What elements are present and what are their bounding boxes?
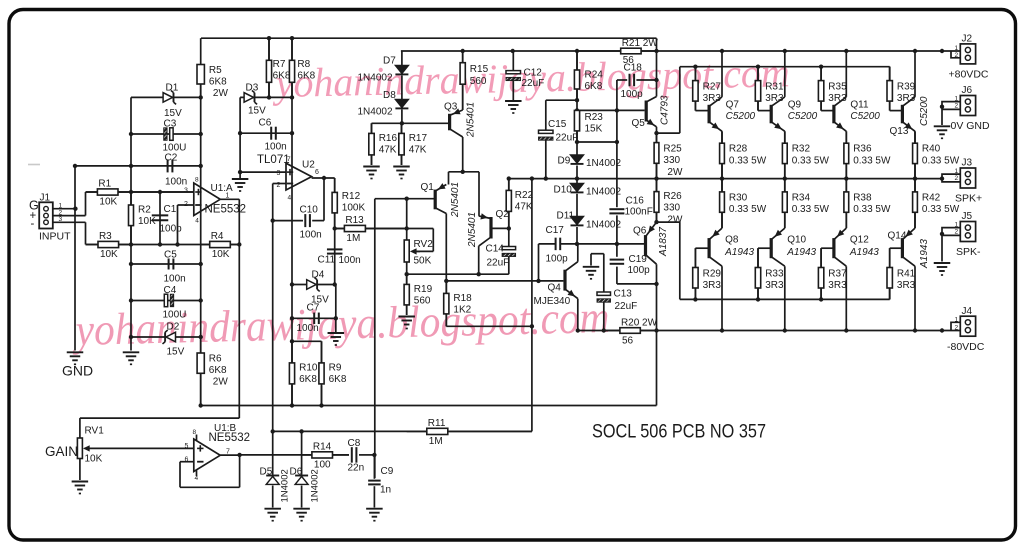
wire [321, 386, 323, 406]
capacitor C11 [318, 249, 361, 266]
diode D8 [383, 90, 408, 108]
svg-text:2N5401: 2N5401 [466, 102, 477, 138]
svg-text:C12: C12 [524, 68, 543, 79]
resistor R3 [86, 231, 132, 260]
wire [889, 288, 891, 299]
junction [720, 176, 724, 180]
junction [444, 279, 448, 283]
wire [201, 405, 657, 407]
resistor R4 [201, 231, 240, 260]
diode D10 [554, 184, 584, 196]
junction [129, 262, 133, 266]
resistor R17 [399, 123, 428, 165]
diode D9 [558, 155, 584, 167]
svg-text:3R3: 3R3 [765, 280, 784, 291]
capacitor C10 [300, 205, 322, 241]
svg-text:C16: C16 [626, 195, 645, 206]
junction [129, 242, 133, 246]
junction [73, 207, 77, 211]
wire [200, 373, 202, 406]
junction [319, 403, 323, 407]
capacitor C7 [297, 303, 320, 335]
resistor R13 [335, 215, 407, 244]
svg-text:J1: J1 [40, 192, 51, 203]
junction [720, 328, 724, 332]
capacitor C16 [609, 195, 652, 217]
ground [67, 352, 84, 364]
svg-text:560: 560 [414, 295, 431, 306]
junction [290, 339, 294, 343]
junction [507, 226, 511, 230]
wire [656, 163, 658, 191]
zener diode D3 [244, 83, 266, 117]
svg-text:56: 56 [622, 336, 634, 347]
svg-text:2: 2 [277, 182, 281, 189]
svg-text:100n: 100n [339, 255, 361, 266]
resistor R36 [844, 131, 891, 178]
wire [694, 67, 696, 81]
junction [237, 242, 241, 246]
wire [373, 455, 375, 479]
svg-text:C5200: C5200 [919, 96, 930, 126]
wire [131, 133, 201, 135]
svg-text:6: 6 [185, 457, 189, 464]
wire [335, 228, 407, 230]
svg-text:3: 3 [277, 170, 281, 177]
wire [512, 81, 514, 101]
svg-text:22uF: 22uF [615, 301, 638, 312]
junction [575, 140, 579, 144]
junction [575, 176, 579, 180]
wire [546, 99, 577, 101]
wire [576, 194, 578, 217]
wire [178, 204, 194, 206]
wire [180, 486, 240, 488]
svg-text:7: 7 [287, 156, 291, 163]
wire [531, 179, 533, 432]
svg-text:C13: C13 [614, 289, 633, 300]
wire [845, 266, 847, 330]
wire [80, 417, 239, 419]
svg-text:R2: R2 [138, 205, 151, 216]
junction [199, 164, 203, 168]
wire [914, 131, 916, 142]
junction [654, 282, 658, 286]
label D5 value [280, 469, 291, 502]
junction [199, 298, 203, 302]
resistor R33 [755, 248, 784, 299]
junction [290, 36, 294, 40]
svg-text:100p: 100p [621, 89, 644, 100]
capacitor C3 [163, 119, 187, 154]
op-amp U1:B NE5532 [185, 423, 251, 482]
connector J3 [942, 158, 982, 205]
wire [721, 51, 723, 97]
potentiometer RV2 [404, 239, 433, 267]
svg-text:R35: R35 [828, 82, 847, 93]
wire [845, 51, 847, 97]
svg-text:100K: 100K [342, 203, 366, 214]
wire [273, 430, 532, 432]
svg-text:1M: 1M [429, 436, 443, 447]
svg-text:RV1: RV1 [85, 426, 105, 437]
diode D5 [260, 467, 280, 485]
potentiometer RV1 [77, 426, 104, 465]
svg-text:D9: D9 [558, 156, 571, 167]
wire [375, 198, 434, 200]
svg-text:6K8: 6K8 [209, 365, 227, 376]
wire [616, 80, 618, 207]
junction [654, 131, 658, 135]
label D10 value [586, 187, 621, 198]
transistor Q3 [444, 102, 477, 139]
svg-text:15K: 15K [585, 124, 603, 135]
svg-text:D2: D2 [167, 322, 180, 333]
wire [545, 100, 547, 130]
resistor R8 [289, 38, 315, 97]
wire [576, 89, 578, 111]
resistor R24 [574, 51, 603, 100]
label Q4 type [534, 296, 571, 307]
svg-text:R1: R1 [98, 179, 111, 190]
svg-text:R30: R30 [729, 192, 748, 203]
wire [889, 288, 891, 299]
svg-text:1N4002: 1N4002 [358, 73, 393, 84]
wire [462, 84, 464, 110]
svg-text:47K: 47K [379, 145, 397, 156]
wire [478, 246, 480, 274]
svg-text:2W: 2W [667, 167, 683, 178]
svg-text:2: 2 [955, 103, 959, 110]
svg-text:C5200: C5200 [788, 111, 818, 122]
zener diode D2 [163, 322, 185, 358]
wire [845, 131, 847, 142]
junction [654, 328, 658, 332]
stray mark [28, 164, 40, 166]
svg-text:1N4002: 1N4002 [358, 107, 393, 118]
transistor Q14 [888, 228, 931, 269]
svg-text:R31: R31 [765, 82, 784, 93]
wire [414, 250, 433, 252]
resistor R2 [129, 192, 157, 245]
svg-text:U2: U2 [302, 160, 315, 171]
svg-text:R21 2W: R21 2W [622, 38, 659, 49]
wire [784, 51, 786, 97]
svg-text:A1943: A1943 [724, 247, 754, 258]
junction [461, 49, 465, 53]
wire [177, 205, 179, 245]
svg-text:3R3: 3R3 [703, 280, 722, 291]
wire [538, 244, 540, 281]
transistor Q9 [770, 97, 818, 131]
svg-text:3: 3 [184, 188, 188, 195]
ground [366, 509, 383, 521]
transistor Q6 [633, 222, 669, 264]
svg-text:C9: C9 [381, 466, 394, 477]
wire [616, 215, 618, 244]
junction [129, 335, 133, 339]
wire [757, 101, 759, 111]
resistor R41 [887, 248, 916, 299]
svg-text:1: 1 [955, 316, 959, 323]
resistor R16 [369, 123, 398, 165]
svg-text:47K: 47K [515, 202, 533, 213]
svg-text:C6: C6 [259, 118, 272, 129]
svg-text:1N4002: 1N4002 [586, 158, 621, 169]
wire [680, 298, 890, 300]
svg-text:D5: D5 [260, 467, 273, 478]
svg-text:2W: 2W [213, 377, 229, 388]
transistor Q7 [708, 97, 756, 131]
wire [220, 454, 239, 456]
svg-text:6K8: 6K8 [273, 70, 291, 81]
wire [889, 67, 891, 81]
wire [679, 67, 681, 133]
junction [783, 176, 787, 180]
capacitor C18 [621, 63, 644, 101]
junction [238, 170, 242, 174]
wire [406, 303, 408, 315]
svg-text:R16: R16 [379, 133, 398, 144]
wire [721, 212, 723, 228]
svg-text:2W: 2W [667, 214, 683, 225]
wire [446, 325, 532, 327]
wire [577, 141, 617, 143]
svg-text:1: 1 [955, 45, 959, 52]
wire [820, 67, 822, 81]
junction [129, 132, 133, 136]
junction [129, 164, 133, 168]
wire [492, 227, 508, 229]
svg-text:Q5: Q5 [632, 118, 646, 129]
wire [603, 254, 605, 292]
svg-text:330: 330 [663, 203, 680, 214]
label D7 value [358, 73, 393, 84]
junction [940, 105, 944, 109]
wire [301, 486, 303, 508]
wire [321, 341, 323, 364]
svg-text:A1837: A1837 [658, 227, 669, 257]
wire [784, 131, 786, 142]
svg-text:R19: R19 [414, 284, 433, 295]
wire [272, 184, 274, 432]
wire [131, 263, 201, 265]
resistor R38 [844, 179, 891, 229]
svg-text:2: 2 [955, 325, 959, 332]
wire [577, 244, 579, 262]
svg-text:Q8: Q8 [725, 235, 739, 246]
svg-text:Q6: Q6 [633, 226, 647, 237]
junction [575, 242, 579, 246]
svg-text:Q11: Q11 [850, 100, 869, 111]
svg-text:NE5532: NE5532 [209, 432, 251, 444]
svg-text:2N5401: 2N5401 [450, 182, 461, 218]
wire [268, 83, 270, 98]
svg-text:8: 8 [195, 176, 199, 183]
label GAIN [45, 444, 78, 459]
svg-text:R25: R25 [663, 144, 682, 155]
wire [576, 131, 578, 143]
resistor R6 [197, 337, 228, 406]
svg-text:R9: R9 [329, 362, 342, 373]
svg-text:C4793: C4793 [660, 95, 671, 125]
wire [53, 215, 86, 217]
svg-text:R17: R17 [409, 133, 428, 144]
wire [85, 447, 194, 449]
resistor R29 [693, 248, 722, 299]
svg-text:56: 56 [623, 55, 635, 66]
svg-text:0.33 5W: 0.33 5W [853, 155, 891, 166]
svg-text:0.33 5W: 0.33 5W [792, 155, 830, 166]
wire [561, 243, 646, 245]
watermark top [271, 49, 790, 106]
wire [545, 141, 547, 179]
wire [578, 330, 942, 332]
wire [323, 178, 325, 221]
svg-text:1: 1 [955, 168, 959, 175]
junction [693, 65, 697, 69]
svg-text:D6: D6 [290, 467, 303, 478]
wire [374, 199, 376, 478]
wire [239, 455, 241, 487]
svg-text:SOCL 506 PCB NO 357: SOCL 506 PCB NO 357 [592, 421, 766, 443]
junction [819, 297, 823, 301]
svg-text:2: 2 [955, 52, 959, 59]
junction [783, 328, 787, 332]
svg-text:Q3: Q3 [444, 102, 458, 113]
junction [129, 190, 133, 194]
label D11 value [586, 220, 621, 231]
junction [507, 176, 511, 180]
svg-text:0.33 5W: 0.33 5W [922, 155, 960, 166]
wire [889, 248, 891, 267]
wire [312, 220, 324, 222]
svg-text:3R3: 3R3 [897, 280, 916, 291]
wire [239, 97, 241, 179]
wire [695, 247, 708, 249]
transistor Q13 [890, 96, 931, 137]
capacitor C13 [597, 289, 637, 313]
wire [79, 418, 81, 438]
ground [123, 352, 140, 364]
svg-text:Q9: Q9 [788, 100, 802, 111]
svg-text:1K2: 1K2 [453, 304, 471, 315]
svg-text:R12: R12 [342, 191, 361, 202]
junction [530, 324, 534, 328]
wire [576, 179, 578, 184]
wire [359, 454, 374, 456]
svg-text:SPK-: SPK- [956, 246, 981, 258]
ground [264, 509, 281, 521]
junction [372, 453, 376, 457]
svg-text:100n: 100n [297, 323, 319, 334]
wire [758, 110, 770, 112]
svg-text:560: 560 [470, 76, 487, 87]
resistor R26 [654, 179, 683, 226]
watermark bottom [71, 292, 610, 355]
capacitor C8 [348, 438, 365, 474]
junction [940, 232, 944, 236]
wire [131, 300, 201, 302]
junction [461, 170, 465, 174]
resistor R25 [654, 133, 683, 179]
ground [393, 167, 410, 179]
svg-text:100p: 100p [160, 224, 183, 235]
svg-text:A1943: A1943 [849, 247, 879, 258]
junction [720, 49, 724, 53]
junction [544, 176, 548, 180]
svg-text:10K: 10K [138, 216, 156, 227]
svg-text:1N4002: 1N4002 [586, 187, 621, 198]
wire [656, 133, 658, 142]
svg-text:R7: R7 [273, 59, 286, 70]
wire [757, 67, 759, 81]
svg-text:C2: C2 [165, 152, 178, 163]
transistor Q8 [708, 228, 755, 266]
svg-text:47K: 47K [409, 145, 427, 156]
svg-text:1: 1 [955, 222, 959, 229]
connector J5 [942, 211, 981, 262]
junction [819, 65, 823, 69]
resistor R40 [913, 131, 960, 178]
wire [292, 317, 336, 319]
wire [401, 123, 403, 133]
junction [913, 176, 917, 180]
svg-text:Q12: Q12 [850, 235, 869, 246]
svg-text:Q13: Q13 [890, 126, 909, 137]
wire [407, 228, 434, 230]
label D9 value [586, 158, 621, 169]
wire [291, 285, 293, 406]
svg-text:R13: R13 [345, 215, 364, 226]
wire [889, 101, 891, 111]
resistor R22 [506, 179, 533, 229]
wire [432, 229, 434, 252]
wire [603, 302, 605, 330]
op-amp U1:B power stubs [196, 435, 198, 477]
junction [333, 282, 337, 286]
ground [232, 179, 249, 191]
wire [201, 37, 657, 39]
svg-text:C5: C5 [164, 250, 177, 261]
wire [333, 454, 350, 456]
svg-text:2N5401: 2N5401 [467, 212, 478, 248]
wire [230, 244, 240, 246]
wire [889, 67, 891, 81]
wire [508, 257, 510, 274]
junction [175, 242, 179, 246]
capacitor C12 [506, 68, 544, 90]
svg-text:D10: D10 [554, 185, 573, 196]
wire [272, 486, 274, 508]
junction [575, 108, 579, 112]
junction [400, 121, 404, 125]
svg-text:50K: 50K [414, 256, 432, 267]
op-amp U1:A NE5532 [184, 176, 246, 224]
junction [299, 429, 303, 433]
transistor Q2 [467, 209, 509, 248]
wire [407, 273, 509, 275]
wire [821, 110, 833, 112]
wire [680, 66, 890, 68]
junction [199, 403, 203, 407]
svg-text:R5: R5 [209, 65, 222, 76]
svg-text:1n: 1n [380, 485, 391, 496]
wire [130, 97, 132, 350]
wire [240, 454, 312, 456]
wire [292, 284, 335, 286]
svg-text:3R3: 3R3 [828, 280, 847, 291]
